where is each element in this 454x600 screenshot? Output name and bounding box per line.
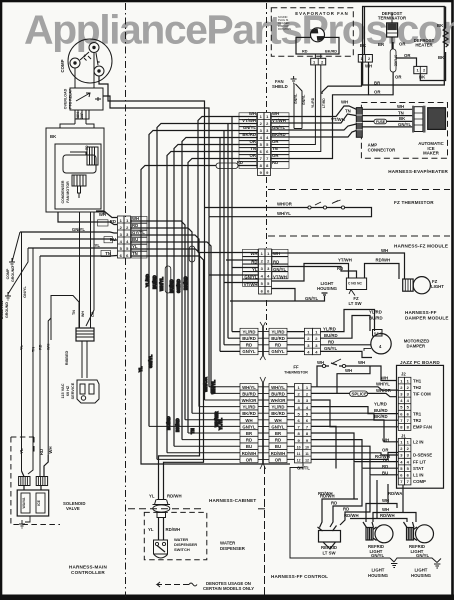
svg-text:COMP: COMP xyxy=(6,268,10,279)
svg-text:VALVE: VALVE xyxy=(66,506,80,511)
svg-text:TN: TN xyxy=(345,109,351,114)
svg-text:WH/OR: WH/OR xyxy=(277,202,293,207)
svg-text:BK/RD: BK/RD xyxy=(183,276,188,290)
divider dashed line right (x=266) xyxy=(266,3,268,112)
svg-text:BR: BR xyxy=(383,458,390,463)
svg-text:EMP FAN: EMP FAN xyxy=(413,425,432,430)
svg-text:WH: WH xyxy=(317,360,324,365)
wire RD run xyxy=(330,469,362,527)
solenoid valve box xyxy=(17,490,49,516)
svg-text:WH: WH xyxy=(382,438,389,443)
svg-text:OR: OR xyxy=(272,139,279,144)
svg-text:LT SW: LT SW xyxy=(348,301,362,306)
svg-text:YL/RD: YL/RD xyxy=(374,401,387,406)
svg-text:YL/RD: YL/RD xyxy=(145,274,150,287)
svg-text:RD: RD xyxy=(272,160,278,165)
115VAC service plug xyxy=(77,380,99,403)
svg-text:LT SW: LT SW xyxy=(322,551,336,556)
damper wires from connector xyxy=(320,310,374,332)
svg-text:J2: J2 xyxy=(401,372,406,377)
svg-text:BK/RD: BK/RD xyxy=(242,132,256,137)
splice on RD row8 xyxy=(238,165,258,167)
wire aux down xyxy=(28,248,33,474)
crimp terminals xyxy=(19,477,30,486)
svg-text:RD/WH: RD/WH xyxy=(344,513,359,518)
wire WH second run xyxy=(103,96,209,217)
refrid light C xyxy=(404,522,434,543)
wire WH long down xyxy=(48,318,51,455)
svg-text:BU/RD: BU/RD xyxy=(242,391,256,396)
svg-text:BU: BU xyxy=(132,237,138,242)
svg-text:WH: WH xyxy=(381,248,388,253)
svg-text:GROUND: GROUND xyxy=(5,302,9,318)
svg-text:COMP: COMP xyxy=(60,59,65,72)
defrost heater element xyxy=(443,7,448,53)
svg-text:L2 IN: L2 IN xyxy=(413,440,424,445)
svg-text:YL/RD: YL/RD xyxy=(243,405,256,410)
svg-text:YL: YL xyxy=(149,494,155,499)
svg-text:BU/RD: BU/RD xyxy=(152,275,157,289)
svg-text:TN: TN xyxy=(132,251,138,256)
svg-text:TH2: TH2 xyxy=(413,385,422,390)
svg-text:WH: WH xyxy=(382,507,389,512)
svg-text:TERMINATOR: TERMINATOR xyxy=(378,16,407,21)
bottom lights wiring xyxy=(320,462,417,527)
wire OR from splice down xyxy=(369,72,394,95)
svg-text:TN: TN xyxy=(250,146,256,151)
wire RD to switch xyxy=(272,267,357,279)
svg-text:OR: OR xyxy=(382,448,389,453)
evap fan wire RD down-left xyxy=(271,65,316,145)
svg-text:RD: RD xyxy=(39,449,44,455)
svg-text:BK/RD: BK/RD xyxy=(272,132,286,137)
svg-text:10: 10 xyxy=(297,445,301,449)
fz light bulb xyxy=(413,277,430,294)
svg-text:GN/YL: GN/YL xyxy=(72,227,86,232)
wire BR down from connector xyxy=(322,62,362,94)
svg-text:YL: YL xyxy=(148,527,154,532)
wire bundle row4 BK/RD xyxy=(182,138,258,440)
svg-text:RD: RD xyxy=(110,219,116,224)
wires PTC to condenser area xyxy=(75,119,86,124)
run capacitor RUN CAP xyxy=(75,110,89,119)
wire BK right connector to heater xyxy=(420,52,445,81)
svg-text:BU/RD: BU/RD xyxy=(242,336,256,341)
evap fan wire BK/RD down-left xyxy=(271,65,321,152)
wires bundle to P2 xyxy=(198,253,259,283)
evaporator fan dashed box xyxy=(271,8,353,65)
label boxes P3 xyxy=(239,113,289,169)
svg-text:WH: WH xyxy=(132,216,139,221)
svg-text:CERTAIN MODELS ONLY: CERTAIN MODELS ONLY xyxy=(203,586,254,591)
svg-text:OVERLOAD: OVERLOAD xyxy=(64,88,68,109)
svg-text:YL/RD: YL/RD xyxy=(243,329,256,334)
svg-text:WH: WH xyxy=(249,111,256,116)
svg-text:WH/OR: WH/OR xyxy=(271,398,287,403)
ground symbol B xyxy=(391,564,397,568)
svg-text:JAZZ PC BOARD: JAZZ PC BOARD xyxy=(400,360,440,365)
svg-text:WH/YL: WH/YL xyxy=(277,211,291,216)
svg-text:FZ THERMISTOR: FZ THERMISTOR xyxy=(394,200,434,205)
svg-text:RD/WH: RD/WH xyxy=(318,491,333,496)
svg-text:BK/RD: BK/RD xyxy=(374,414,388,419)
automatic ice maker body xyxy=(428,108,446,130)
wire RD/WH run xyxy=(320,462,359,527)
wire WH to fz light xyxy=(272,253,405,279)
svg-text:OR: OR xyxy=(91,311,95,317)
wire from condenser WH to connector pin1 xyxy=(96,211,117,218)
fuse xyxy=(374,119,387,124)
svg-text:BU/RD: BU/RD xyxy=(324,333,338,338)
svg-text:WATER: WATER xyxy=(220,541,236,546)
wire from M terminal down xyxy=(93,53,95,89)
wire BU row xyxy=(40,239,117,240)
svg-text:TR2: TR2 xyxy=(413,418,422,423)
ground symbol C xyxy=(434,564,440,568)
svg-text:RD: RD xyxy=(85,145,89,150)
svg-text:GY/YL: GY/YL xyxy=(132,230,145,235)
svg-text:STAT: STAT xyxy=(413,466,424,471)
water dispenser wires xyxy=(153,500,171,559)
svg-text:RD/WH: RD/WH xyxy=(380,513,395,518)
svg-text:BK: BK xyxy=(399,116,406,121)
wires down to crimps xyxy=(22,455,49,477)
svg-text:SWITCH: SWITCH xyxy=(174,547,190,552)
defrost connector 1 2 right xyxy=(414,66,427,73)
svg-text:RD: RD xyxy=(343,507,349,512)
svg-text:HARNESS-FF CONTROL: HARNESS-FF CONTROL xyxy=(271,574,328,579)
svg-text:BU/RD: BU/RD xyxy=(374,408,388,413)
svg-text:WH: WH xyxy=(48,446,53,453)
svg-text:VT/WH: VT/WH xyxy=(244,282,258,287)
svg-text:OR: OR xyxy=(275,457,282,462)
svg-text:YL: YL xyxy=(20,344,24,350)
wires 12-pin to J2 xyxy=(311,387,398,469)
terminal block xyxy=(76,328,94,341)
svg-text:BK/RD: BK/RD xyxy=(271,411,285,416)
mains wire pair down to terminal block xyxy=(80,212,91,328)
svg-text:VT/WH: VT/WH xyxy=(272,118,286,123)
svg-text:WH/YL: WH/YL xyxy=(159,277,164,291)
connector P1 6-pin xyxy=(118,216,131,258)
svg-text:TN: TN xyxy=(398,110,404,115)
svg-text:HARNESS-FZ MODULE: HARNESS-FZ MODULE xyxy=(394,244,448,249)
svg-text:BU/RD: BU/RD xyxy=(369,316,383,321)
svg-text:YL/RD: YL/RD xyxy=(311,97,315,108)
amp connector dashed box xyxy=(271,103,448,159)
separator dashed harness-evap xyxy=(268,189,450,191)
connector P2 6-pin fz module xyxy=(259,249,272,294)
svg-text:GN/YL: GN/YL xyxy=(416,553,430,558)
label boxes P2 xyxy=(243,249,289,286)
wire TN join to terminal block xyxy=(51,296,79,341)
base pan ground xyxy=(5,248,28,300)
svg-text:BK: BK xyxy=(438,55,445,60)
svg-text:WH/OR: WH/OR xyxy=(203,376,208,392)
ground light housing fz xyxy=(322,293,328,297)
svg-text:GN/YL: GN/YL xyxy=(398,122,412,127)
svg-text:C NO NC: C NO NC xyxy=(348,282,363,286)
svg-text:BR: BR xyxy=(275,431,282,436)
svg-text:WH: WH xyxy=(365,64,372,69)
svg-text:BU: BU xyxy=(275,444,281,449)
svg-text:LIGHT: LIGHT xyxy=(415,568,428,573)
wire OR terminator to right connector xyxy=(393,42,416,66)
svg-text:WH: WH xyxy=(358,360,365,365)
wire YL long down xyxy=(21,232,23,471)
svg-text:OR: OR xyxy=(395,75,402,80)
cross wires at 12-pin rows xyxy=(258,387,269,460)
defrost terminator body xyxy=(387,23,398,37)
svg-text:WH: WH xyxy=(341,100,348,105)
compressor COMP xyxy=(68,39,112,83)
svg-text:OR: OR xyxy=(404,53,411,58)
svg-text:HARNESS-EVAP/HEATER: HARNESS-EVAP/HEATER xyxy=(388,169,448,174)
bundle mid verticals xyxy=(205,208,210,401)
splice vertical pill xyxy=(390,49,396,72)
svg-text:CONTROLLER: CONTROLLER xyxy=(71,570,105,575)
svg-text:BR: BR xyxy=(378,42,385,47)
svg-text:YL/RD: YL/RD xyxy=(272,405,285,410)
svg-text:RD: RD xyxy=(275,438,281,443)
wire row1 WH down xyxy=(198,117,258,253)
splice pill vertical 1 xyxy=(189,246,195,262)
svg-text:GN/YL: GN/YL xyxy=(324,346,338,351)
svg-text:VT/WH: VT/WH xyxy=(273,275,287,280)
svg-text:BASE PAN: BASE PAN xyxy=(0,300,4,319)
refrid light B xyxy=(363,522,393,543)
svg-text:RD: RD xyxy=(331,501,337,506)
svg-text:THERMISTOR: THERMISTOR xyxy=(284,371,308,375)
svg-text:CAP: CAP xyxy=(80,112,84,120)
svg-text:GN/YL: GN/YL xyxy=(242,424,256,429)
svg-text:EVAPORATOR FAN: EVAPORATOR FAN xyxy=(295,11,348,16)
svg-text:WH: WH xyxy=(397,104,404,109)
svg-text:WH/OR: WH/OR xyxy=(242,398,258,403)
solenoid dashed box xyxy=(11,437,60,525)
svg-text:RD: RD xyxy=(132,223,138,228)
refrid lt sw fixture xyxy=(318,526,341,550)
svg-text:PTC RELAY: PTC RELAY xyxy=(69,88,73,109)
svg-text:HARNESS-FF: HARNESS-FF xyxy=(405,310,437,315)
svg-text:WH/YL: WH/YL xyxy=(242,385,256,390)
wire YL row xyxy=(28,247,117,249)
wire RD/WH run3 xyxy=(350,480,407,522)
svg-text:RD: RD xyxy=(251,260,257,265)
fz thermistor group xyxy=(205,200,372,217)
svg-text:LIGHT: LIGHT xyxy=(431,284,444,289)
bundle verticals from P1 right side xyxy=(131,221,186,420)
svg-text:GN/YL: GN/YL xyxy=(23,286,27,298)
svg-text:12: 12 xyxy=(305,459,309,463)
svg-text:OR: OR xyxy=(399,42,406,47)
comp ground xyxy=(9,232,20,266)
wire bundle row3 GN/YL xyxy=(149,131,258,427)
fz light switch box xyxy=(346,278,366,290)
wire bundle row5 OR xyxy=(174,145,258,447)
svg-text:SERVICE: SERVICE xyxy=(71,382,75,399)
svg-text:YT/WH: YT/WH xyxy=(338,258,352,263)
svg-text:RIBBED: RIBBED xyxy=(65,350,69,365)
svg-text:RD: RD xyxy=(382,464,388,469)
wire WH down from connector xyxy=(271,62,369,158)
wires left labels to connector xyxy=(220,332,304,352)
svg-text:WH/OR: WH/OR xyxy=(376,388,392,393)
wire RD long down xyxy=(39,256,41,477)
svg-text:YL: YL xyxy=(252,267,258,272)
defrost connector 1 2 left xyxy=(358,55,372,63)
svg-text:GN/YL: GN/YL xyxy=(271,349,285,354)
svg-text:11: 11 xyxy=(305,452,309,456)
svg-text:TR1: TR1 xyxy=(413,412,422,417)
svg-text:GN/YL: GN/YL xyxy=(371,553,385,558)
motorized damper body xyxy=(371,334,391,354)
svg-text:RD: RD xyxy=(275,343,281,348)
svg-text:TN: TN xyxy=(105,251,111,256)
svg-text:MAKER: MAKER xyxy=(423,151,440,156)
svg-text:YL: YL xyxy=(19,448,24,454)
amp right connector strip xyxy=(414,107,423,132)
wire TN row xyxy=(40,255,117,258)
gn/yl ground wires xyxy=(290,464,441,569)
wire bundle row6 TN xyxy=(167,152,258,453)
svg-text:L1 IN: L1 IN xyxy=(413,473,424,478)
svg-text:VT/WH: VT/WH xyxy=(331,117,345,122)
wire bundle row7 OR xyxy=(188,159,258,434)
rotated bundle wire labels xyxy=(138,274,223,434)
svg-text:RD: RD xyxy=(246,343,252,348)
wire WH right branch down xyxy=(86,212,94,326)
fan shield ground + drain wires xyxy=(291,76,297,83)
evaporator fan motor xyxy=(296,37,339,54)
svg-text:YL/RD: YL/RD xyxy=(323,326,336,331)
svg-text:BR: BR xyxy=(246,431,253,436)
svg-text:GN/YL: GN/YL xyxy=(302,95,306,105)
svg-text:FF LIT: FF LIT xyxy=(413,459,426,464)
condenser fan inner box xyxy=(55,144,101,209)
water dispenser switch xyxy=(154,540,168,554)
12-pin boxed label columns xyxy=(240,384,287,463)
svg-text:YL/RD: YL/RD xyxy=(369,310,382,315)
svg-text:WH: WH xyxy=(81,311,85,317)
svg-text:TN: TN xyxy=(32,347,36,352)
svg-text:RD/WA: RD/WA xyxy=(388,491,402,496)
svg-text:WH: WH xyxy=(47,343,51,350)
svg-text:RD/WH: RD/WH xyxy=(271,451,286,456)
condenser fan motor xyxy=(63,155,96,173)
svg-text:BK: BK xyxy=(360,43,367,48)
svg-text:HOUSING: HOUSING xyxy=(317,286,338,291)
svg-text:SPLICE: SPLICE xyxy=(352,391,368,396)
damper 4-pin connector xyxy=(304,328,320,354)
svg-text:WH: WH xyxy=(345,368,352,373)
ff thermistor xyxy=(317,359,397,393)
svg-text:BU: BU xyxy=(246,444,252,449)
left boxed labels damper rows xyxy=(240,328,287,354)
svg-text:DISPENSER: DISPENSER xyxy=(220,546,246,551)
wire GN/YL row xyxy=(20,232,117,233)
svg-text:OR: OR xyxy=(250,153,257,158)
svg-text:RD: RD xyxy=(302,50,308,54)
svg-text:GN/YL: GN/YL xyxy=(273,267,287,272)
svg-text:GN/YL: GN/YL xyxy=(271,424,285,429)
splice pill vertical 2 xyxy=(165,266,171,293)
svg-text:BU: BU xyxy=(110,237,116,242)
svg-text:HOUSING: HOUSING xyxy=(411,573,432,578)
svg-text:DAMPER MODULE: DAMPER MODULE xyxy=(405,316,449,321)
wire VT/WH to switch xyxy=(272,264,349,282)
svg-text:FUSE: FUSE xyxy=(376,120,386,124)
fz light bulb base xyxy=(403,279,413,291)
svg-text:WH/YL: WH/YL xyxy=(271,385,285,390)
svg-text:WA/VA: WA/VA xyxy=(22,497,26,508)
svg-text:WH: WH xyxy=(272,111,279,116)
svg-text:BK/RD: BK/RD xyxy=(175,418,180,432)
condenser fan outer box xyxy=(46,128,104,212)
connector P3 9-pin xyxy=(258,113,271,176)
amp left connector strip xyxy=(356,108,362,138)
svg-text:WH: WH xyxy=(274,418,281,423)
svg-text:TN: TN xyxy=(72,310,76,315)
bundle verticals from top runs xyxy=(220,117,232,352)
svg-text:OR: OR xyxy=(374,90,381,95)
svg-text:HARNESS-CABINET: HARNESS-CABINET xyxy=(209,498,256,503)
defrost group box xyxy=(271,7,449,159)
divider slant pair at 12-pin rows xyxy=(260,377,266,469)
svg-text:RD/WH: RD/WH xyxy=(242,451,257,456)
svg-text:LT/RD: LT/RD xyxy=(322,98,326,108)
svg-text:FF: FF xyxy=(293,365,299,370)
wire RD/WH switch to light xyxy=(365,264,400,280)
svg-text:WH: WH xyxy=(382,498,389,503)
svg-text:GROUND: GROUND xyxy=(11,266,15,282)
svg-text:RD: RD xyxy=(328,340,334,345)
water dispenser dashed box xyxy=(144,512,207,559)
svg-text:SPLICE: SPLICE xyxy=(394,55,398,67)
divider slant pair at damper rows xyxy=(260,322,266,360)
svg-text:ROTATION: ROTATION xyxy=(278,27,291,31)
cord pair to plug xyxy=(82,341,87,378)
svg-text:HOUSING: HOUSING xyxy=(368,573,389,578)
svg-text:TN: TN xyxy=(272,146,278,151)
svg-text:VT/WH: VT/WH xyxy=(242,118,256,123)
wires into condenser box top xyxy=(60,124,94,128)
svg-text:WH: WH xyxy=(381,376,388,381)
wires 12-pin to J1 xyxy=(311,433,398,475)
svg-text:GN/YL: GN/YL xyxy=(242,349,256,354)
svg-text:YL/RD: YL/RD xyxy=(272,329,285,334)
svg-text:TIF COM: TIF COM xyxy=(413,392,431,397)
wire WH runs xyxy=(366,484,416,522)
svg-text:DAMPER: DAMPER xyxy=(407,344,427,349)
svg-text:RD/WH: RD/WH xyxy=(166,527,181,532)
svg-text:BK: BK xyxy=(437,23,444,28)
svg-text:YL: YL xyxy=(95,243,101,248)
svg-text:OR: OR xyxy=(250,139,257,144)
wires label boxes to 12-pin cells xyxy=(149,387,295,460)
svg-text:12: 12 xyxy=(297,459,301,463)
jazz pc board outline xyxy=(397,365,444,488)
ground xyxy=(19,516,30,528)
svg-text:WH: WH xyxy=(245,418,252,423)
svg-text:HARNESS-MAIN: HARNESS-MAIN xyxy=(69,565,108,570)
cross wires at damper rows xyxy=(258,332,269,352)
svg-text:YL: YL xyxy=(138,366,143,372)
evap fan connector 1 2 xyxy=(311,58,326,65)
svg-text:10: 10 xyxy=(305,445,309,449)
svg-text:GN/YL: GN/YL xyxy=(243,125,257,130)
svg-text:GN/YL: GN/YL xyxy=(244,275,258,280)
